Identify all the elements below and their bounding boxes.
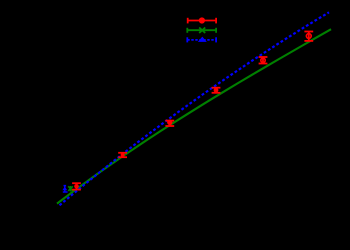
red point 1 marker [74,184,79,189]
blue data point (triangle) with error bar [62,186,67,192]
red point 1 error bar [76,183,78,189]
red point 3 error bar [169,121,171,126]
legend entry 1: red errorbar sample [188,18,216,24]
red point 6 error bar [308,32,310,41]
red point 4 error bar [215,88,217,93]
red point 2 marker [121,153,125,157]
red point 4 marker [214,88,219,93]
red point 6 marker (open circle) [306,34,311,39]
green fit curve [57,29,331,203]
red point 5 marker (open circle) [261,58,265,62]
red point 5 error bar [262,57,264,64]
red point 2 error bar [122,153,124,157]
red point 3 marker [167,120,172,125]
red data series: points with error bars [72,32,313,190]
blue dashed fit curve [60,12,330,205]
green data point (X) with error bar [68,186,73,192]
legend entry 2: green errorbar sample with X [187,28,216,33]
legend entry 3: blue dashed sample with triangle [187,37,216,42]
